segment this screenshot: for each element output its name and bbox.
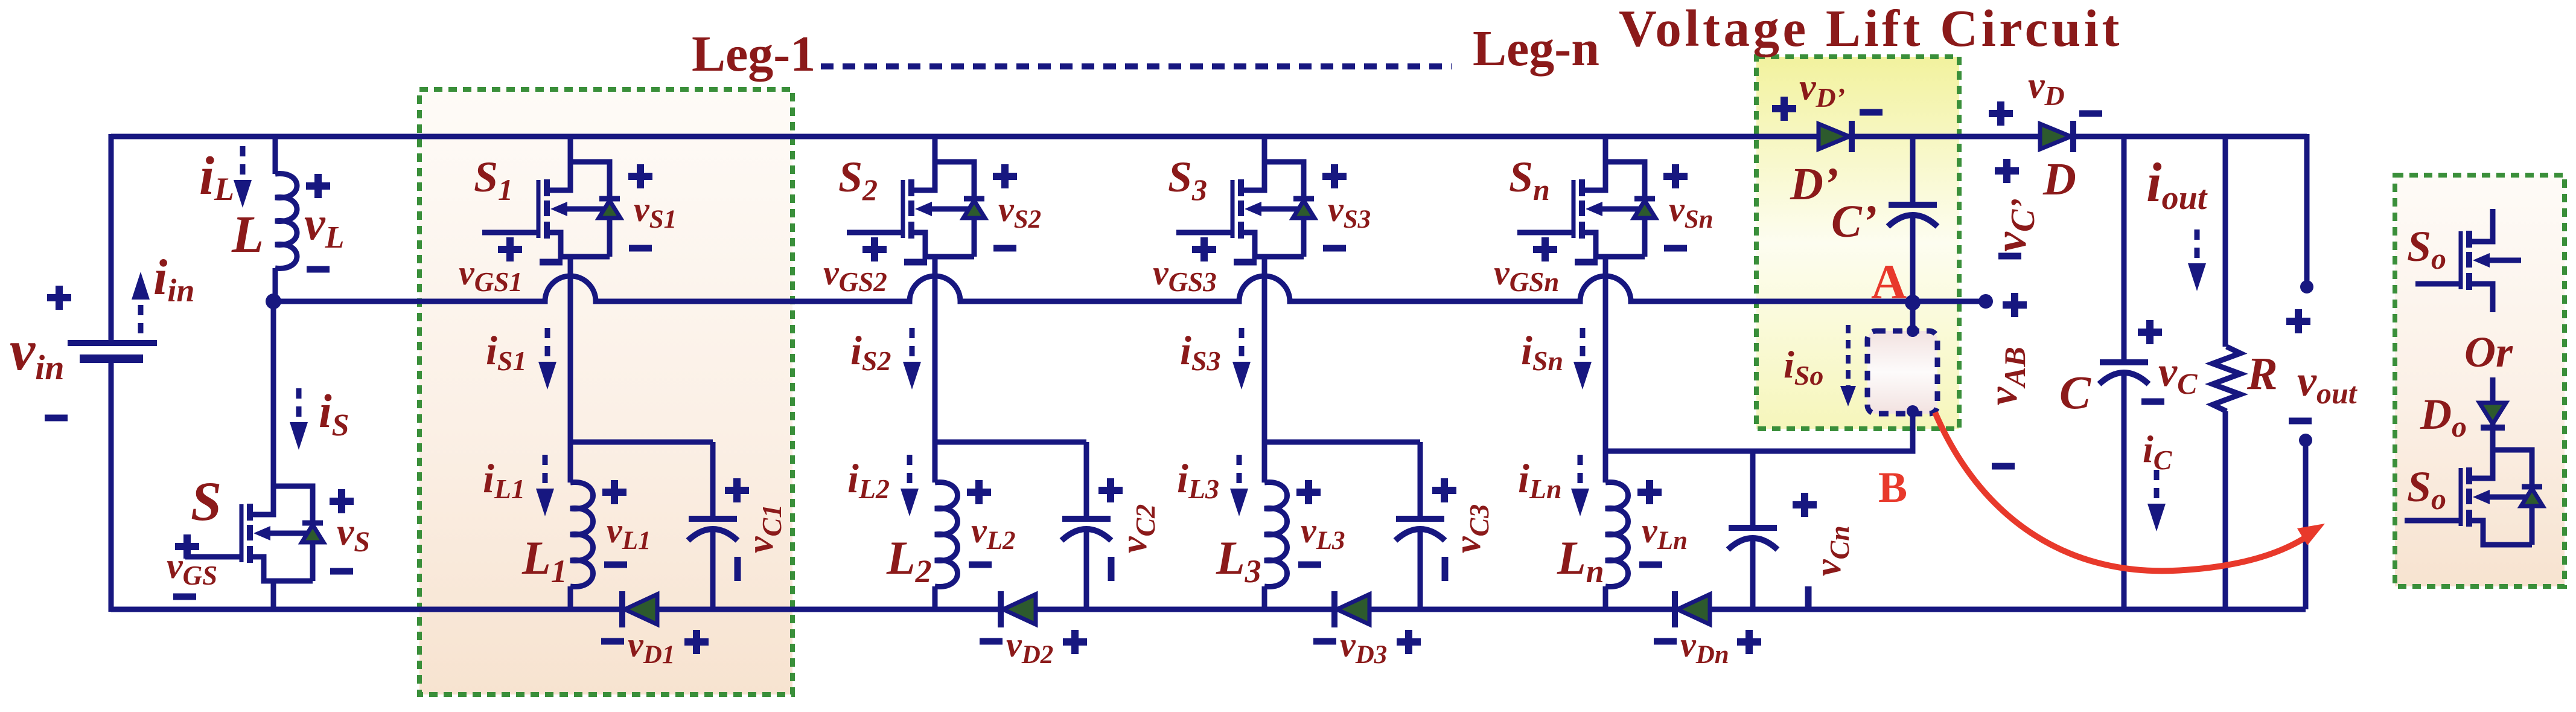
transistor So top (MOSFET no body diode): [2415, 209, 2521, 312]
wire middle bus with hops over leg switches: [273, 276, 1986, 301]
svg-text:Or: Or: [2464, 328, 2513, 376]
wire vout top branch: [2304, 134, 2310, 284]
svg-text:Voltage Lift Circuit: Voltage Lift Circuit: [1619, 0, 2123, 57]
plus vLn: [1637, 480, 1662, 504]
plus vSn: [1663, 164, 1688, 188]
minus vD2: [980, 641, 1003, 642]
wire S2 source down through bus hop: [933, 257, 938, 442]
svg-text:iL2: iL2: [847, 455, 890, 504]
node A junction dot: [1905, 295, 1921, 310]
minus vS2: [993, 248, 1016, 249]
wire S source to bottom rail: [271, 581, 276, 609]
minus vS: [330, 571, 353, 572]
current arrow iL3: [1230, 455, 1248, 516]
svg-text:vAB: vAB: [1980, 347, 2032, 405]
wire S1 source down through bus hop: [568, 257, 573, 442]
minus vD: [2079, 113, 2102, 114]
minus vD1: [601, 641, 624, 642]
svg-text:B: B: [1878, 463, 1907, 512]
current arrow iS2: [903, 328, 921, 390]
current arrow iS3: [1232, 328, 1251, 390]
diode D2 on bottom rail: [1001, 591, 1036, 627]
wire L2 bottom: [933, 586, 938, 609]
current arrow iSn: [1573, 328, 1592, 390]
svg-text:Leg-n: Leg-n: [1473, 21, 1599, 77]
inductor L3: [1264, 483, 1287, 587]
transistor S1 (MOSFET with body diode): [482, 162, 620, 257]
svg-text:S3: S3: [1168, 153, 1207, 207]
minus vS1: [629, 248, 652, 249]
wire Do diode branch: [2490, 377, 2496, 450]
wire C prime branch top: [1910, 136, 1916, 205]
plus vGS1: [498, 237, 522, 261]
plus vout: [2286, 309, 2310, 333]
minus vCn (rotated bar): [1805, 586, 1812, 611]
wire Ln bottom: [1603, 586, 1608, 609]
Leg-1 highlight box: [419, 89, 792, 694]
plus vS: [330, 489, 354, 513]
wire resistor R branch top: [2223, 136, 2228, 347]
diode D1 on bottom rail: [622, 591, 657, 627]
wire Cn top: [1750, 451, 1756, 528]
wire S3 source down through bus hop: [1262, 257, 1267, 442]
plus vD: [1989, 101, 2013, 126]
minus vGS1: [540, 261, 563, 263]
switch So placeholder dashed box: [1867, 331, 1937, 414]
svg-text:iL3: iL3: [1177, 455, 1219, 504]
vout top terminal dot: [2300, 280, 2313, 293]
svg-text:vL: vL: [304, 197, 344, 255]
wire Sn drain stub: [1603, 134, 1608, 162]
svg-text:Leg-1: Leg-1: [692, 26, 815, 82]
wire resistor R branch bottom: [2223, 411, 2228, 609]
plus vGSn: [1533, 237, 1557, 261]
plus vS1: [628, 164, 652, 188]
wire output capacitor C branch: [2122, 136, 2127, 609]
svg-text:vD: vD: [2028, 65, 2065, 111]
wire leg 1 lower horizontal: [570, 440, 713, 445]
svg-text:vDn: vDn: [1680, 625, 1729, 669]
svg-text:iS: iS: [319, 385, 349, 443]
wire L2 top: [933, 442, 938, 483]
minus vC3 (rotated bar): [1442, 557, 1449, 581]
bus right terminal dot: [1978, 294, 1993, 309]
wire S drain: [271, 301, 276, 486]
svg-text:Sn: Sn: [1509, 153, 1550, 207]
current arrow iS1: [538, 328, 556, 390]
resistor R zigzag: [2213, 347, 2240, 411]
minus vGS: [173, 596, 196, 597]
wire C2 top: [1084, 442, 1089, 519]
svg-text:iS2: iS2: [850, 327, 891, 376]
vout bottom terminal dot: [2299, 434, 2312, 447]
wire left vertical (vin branch): [109, 134, 114, 612]
diode D3 on bottom rail: [1334, 591, 1369, 627]
svg-text:C’: C’: [1831, 196, 1877, 247]
plus vGS: [175, 534, 199, 559]
wire So box bottom to node B: [1605, 414, 1913, 451]
svg-text:vGSn: vGSn: [1494, 253, 1559, 297]
svg-text:S: S: [191, 470, 222, 532]
wire C1 top: [710, 442, 716, 519]
svg-text:Ln: Ln: [1557, 531, 1604, 589]
wire Cn bottom: [1750, 536, 1756, 609]
transistor Sn (MOSFET with body diode): [1517, 162, 1656, 257]
plus vC: [2138, 320, 2162, 344]
wire leg n lower horizontal: [1605, 449, 1912, 454]
plus vDp: [1772, 97, 1796, 121]
svg-text:vCn: vCn: [1808, 525, 1855, 576]
svg-text:vin: vin: [10, 318, 65, 387]
plus vD1: [684, 630, 709, 654]
current arrow iSo: [1840, 325, 1856, 406]
minus vGSn: [1575, 261, 1598, 263]
wire Sn source down through bus hop: [1603, 257, 1608, 451]
junction node at inductor L bottom: [266, 293, 281, 309]
svg-text:vL3: vL3: [1301, 511, 1345, 555]
diode D on top rail: [2040, 121, 2073, 152]
svg-text:S2: S2: [838, 153, 878, 207]
wire L1 bottom: [568, 586, 573, 609]
wire leg 3 lower horizontal: [1264, 440, 1420, 445]
plus vin: [47, 286, 71, 310]
minus vC1 (rotated bar): [735, 557, 741, 581]
minus vSn: [1664, 248, 1687, 249]
inductor Ln: [1605, 483, 1628, 587]
plus vAB: [2003, 293, 2027, 317]
svg-text:vD2: vD2: [1006, 625, 1053, 669]
svg-text:vD3: vD3: [1340, 625, 1387, 669]
wire C1 bottom: [710, 527, 716, 609]
svg-text:R: R: [2246, 348, 2278, 399]
svg-text:vC: vC: [2158, 349, 2198, 400]
svg-text:iin: iin: [153, 249, 194, 309]
minus vC2 (rotated bar): [1108, 557, 1115, 581]
svg-text:vout: vout: [2297, 357, 2358, 410]
plus vC1: [725, 478, 749, 502]
current arrow iS: [290, 388, 308, 450]
capacitor C2: [1062, 519, 1111, 540]
current arrow iLn: [1571, 455, 1589, 516]
wire leg 2 lower horizontal: [935, 440, 1086, 445]
diode Dp (D prime) on top rail: [1819, 121, 1852, 152]
wire top rail: [111, 134, 2307, 140]
minus vCp: [1998, 255, 2021, 257]
transistor So bottom (MOSFET with body diode): [2405, 450, 2543, 545]
wire C3 bottom: [1418, 527, 1423, 609]
wire L top: [273, 136, 278, 174]
wire L bottom: [273, 268, 278, 301]
minus vin: [45, 417, 68, 419]
capacitor Cn: [1728, 528, 1777, 550]
wire S1 drain stub: [568, 134, 573, 162]
minus vDp: [1860, 112, 1883, 113]
minus vS3: [1323, 248, 1346, 249]
svg-text:iC: iC: [2143, 428, 2173, 475]
diode Dn on bottom rail: [1675, 591, 1710, 627]
dot top of So box: [1907, 325, 1919, 337]
svg-text:vS2: vS2: [998, 190, 1041, 234]
plus vD2: [1063, 630, 1087, 654]
current arrow iL1: [536, 455, 554, 516]
minus vLn: [1639, 564, 1662, 565]
plus vCp: [1995, 159, 2019, 183]
battery vin plates: [68, 340, 157, 346]
capacitor C: [2099, 362, 2149, 384]
current arrow iC: [2147, 470, 2166, 531]
plus vC3: [1432, 478, 1456, 502]
inductor L: [275, 174, 297, 269]
capacitor Cp (C prime): [1888, 205, 1937, 226]
wire S3 drain stub: [1262, 134, 1267, 162]
plus vGS2: [862, 237, 887, 261]
diode Do (pointing down): [2479, 403, 2506, 424]
current arrow iL2: [901, 455, 919, 516]
minus vAB: [1992, 466, 2015, 467]
svg-text:vC2: vC2: [1114, 504, 1161, 553]
wire L3 top: [1262, 442, 1267, 483]
svg-text:L3: L3: [1216, 531, 1261, 589]
plus vL3: [1296, 480, 1321, 504]
svg-text:vGS: vGS: [167, 546, 217, 591]
plus vS2: [993, 164, 1017, 188]
wire Ln top: [1603, 451, 1608, 483]
minus vL1: [604, 564, 627, 565]
transistor S (MOSFET with body diode): [185, 486, 324, 581]
wire bottom rail: [111, 607, 2306, 612]
svg-text:vC3: vC3: [1447, 504, 1494, 553]
minus vL2: [969, 564, 992, 565]
plus vDn: [1737, 630, 1761, 654]
svg-text:vS: vS: [337, 510, 370, 558]
svg-text:iS3: iS3: [1180, 327, 1221, 376]
capacitor C3: [1395, 519, 1445, 540]
transistor S3 (MOSFET with body diode): [1176, 162, 1315, 257]
svg-text:vLn: vLn: [1642, 511, 1688, 555]
minus vout: [2289, 420, 2312, 422]
svg-text:L2: L2: [886, 531, 932, 589]
alternative switch option box: [2395, 175, 2565, 586]
svg-text:iSn: iSn: [1521, 327, 1563, 376]
minus vL3: [1298, 564, 1321, 565]
red pointer arrow from So to options: [1935, 412, 2309, 571]
plus vGS3: [1192, 237, 1216, 261]
current arrow iout: [2188, 229, 2206, 291]
wire C prime to node A: [1910, 215, 1916, 331]
plus vL1: [602, 480, 626, 504]
inductor L2: [935, 483, 958, 587]
svg-text:A: A: [1871, 254, 1907, 309]
svg-text:vS3: vS3: [1328, 190, 1371, 234]
svg-text:vL2: vL2: [971, 511, 1016, 555]
Voltage lift circuit highlight box: [1756, 57, 1959, 429]
current arrow iL: [234, 146, 252, 208]
svg-text:C: C: [2059, 366, 2091, 419]
svg-text:iLn: iLn: [1518, 455, 1562, 504]
plus vL2: [967, 480, 991, 504]
plus vC2: [1098, 478, 1123, 502]
plus vL: [306, 174, 330, 198]
svg-text:vSn: vSn: [1669, 190, 1714, 234]
current arrow iin (up): [132, 272, 150, 333]
svg-text:D: D: [2042, 154, 2076, 205]
wire L1 top: [568, 442, 573, 483]
dot bottom of So box: [1907, 405, 1919, 417]
wire S2 drain stub: [933, 134, 938, 162]
wire vout bottom branch: [2303, 440, 2309, 609]
minus vGS2: [904, 261, 927, 263]
svg-text:L: L: [231, 205, 264, 263]
plus vS3: [1322, 164, 1347, 188]
plus vD3: [1397, 630, 1421, 654]
wire C3 top: [1418, 442, 1423, 519]
minus vDn: [1654, 641, 1677, 642]
wire L3 bottom: [1262, 586, 1267, 609]
dashed separator Leg-1 to Leg-n: [821, 63, 1452, 69]
minus vL: [307, 269, 330, 270]
capacitor C1: [688, 519, 738, 540]
wire C2 bottom: [1084, 527, 1089, 609]
minus vGS3: [1234, 261, 1257, 263]
wire So top source: [2490, 302, 2496, 312]
plus vCn: [1793, 493, 1817, 517]
inductor L1: [570, 483, 593, 587]
svg-text:vC’: vC’: [1986, 198, 2042, 252]
minus vD3: [1313, 641, 1336, 642]
svg-text:iL: iL: [199, 146, 234, 207]
svg-text:iout: iout: [2146, 152, 2208, 217]
transistor S2 (MOSFET with body diode): [847, 162, 985, 257]
minus vC: [2141, 401, 2164, 402]
